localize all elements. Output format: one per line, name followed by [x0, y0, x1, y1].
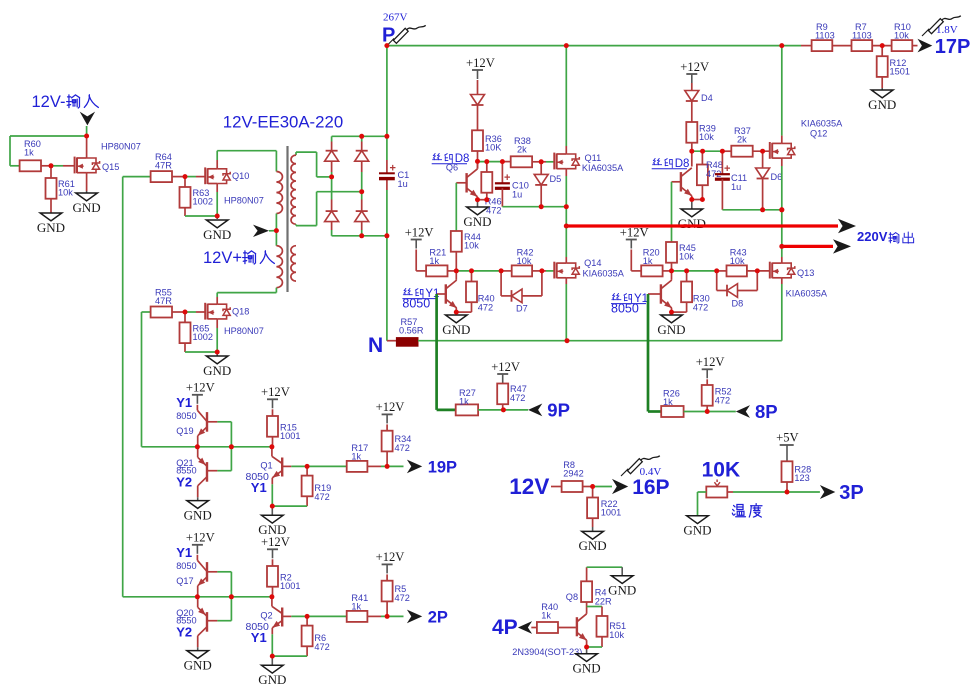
svg-text:+12V: +12V: [261, 535, 290, 549]
svg-text:2k: 2k: [737, 135, 747, 145]
svg-text:GND: GND: [442, 322, 470, 337]
svg-text:Y1: Y1: [176, 545, 192, 560]
svg-text:Q17: Q17: [176, 576, 193, 586]
svg-text:1k: 1k: [429, 256, 439, 266]
svg-text:Y2: Y2: [176, 474, 192, 489]
svg-text:Q11: Q11: [585, 153, 602, 163]
svg-text:GND: GND: [203, 363, 231, 378]
svg-text:GND: GND: [184, 507, 212, 522]
svg-text:220V: 220V: [857, 229, 888, 244]
svg-text:Y2: Y2: [176, 624, 192, 639]
svg-text:GND: GND: [37, 220, 65, 235]
svg-text:+12V: +12V: [186, 381, 215, 395]
svg-text:KIA6035A: KIA6035A: [801, 119, 843, 129]
svg-text:472: 472: [715, 396, 730, 406]
svg-text:472: 472: [314, 642, 329, 652]
svg-text:2P: 2P: [428, 608, 448, 626]
svg-text:2942: 2942: [563, 469, 583, 479]
svg-text:3P: 3P: [839, 482, 863, 504]
svg-text:Q15: Q15: [102, 162, 119, 172]
svg-text:Q13: Q13: [797, 268, 814, 278]
svg-text:2N3904(SOT-23): 2N3904(SOT-23): [512, 647, 582, 657]
svg-text:472: 472: [395, 443, 410, 453]
svg-text:1103: 1103: [815, 31, 835, 41]
svg-text:267V: 267V: [383, 12, 408, 24]
svg-text:10K: 10K: [702, 459, 741, 482]
svg-text:KIA6035A: KIA6035A: [786, 289, 828, 299]
svg-text:1001: 1001: [280, 431, 300, 441]
svg-text:KIA6035A: KIA6035A: [582, 163, 624, 173]
svg-text:Y1: Y1: [251, 630, 267, 645]
svg-text:0.56R: 0.56R: [399, 326, 424, 336]
svg-text:1k: 1k: [459, 396, 469, 406]
svg-text:Q1: Q1: [260, 460, 272, 470]
svg-text:12V: 12V: [509, 474, 549, 499]
svg-text:19P: 19P: [428, 458, 457, 476]
svg-text:GND: GND: [73, 200, 101, 215]
svg-text:472: 472: [510, 393, 525, 403]
svg-text:8P: 8P: [755, 401, 778, 422]
svg-text:10k: 10k: [894, 31, 909, 41]
svg-text:1u: 1u: [731, 182, 741, 192]
svg-text:Y1: Y1: [251, 480, 267, 495]
svg-text:Q12: Q12: [810, 129, 827, 139]
svg-text:+12V: +12V: [376, 400, 405, 414]
svg-text:16P: 16P: [632, 476, 669, 499]
svg-text:12V-EE30A-220: 12V-EE30A-220: [223, 113, 343, 132]
svg-text:10k: 10k: [58, 188, 73, 198]
svg-text:GND: GND: [608, 583, 636, 598]
svg-text:1001: 1001: [601, 508, 621, 518]
svg-text:1k: 1k: [24, 148, 34, 158]
svg-text:10k: 10k: [699, 132, 714, 142]
svg-text:Q6: Q6: [446, 163, 458, 173]
svg-text:10k: 10k: [609, 630, 624, 640]
svg-text:+12V: +12V: [491, 360, 520, 374]
svg-text:8050: 8050: [176, 411, 196, 421]
svg-text:GND: GND: [258, 672, 286, 687]
svg-text:10k: 10k: [517, 256, 532, 266]
svg-text:Y1: Y1: [176, 395, 192, 410]
svg-text:D8: D8: [732, 299, 744, 309]
svg-text:+12V: +12V: [620, 225, 649, 239]
svg-text:8050: 8050: [176, 561, 196, 571]
svg-text:472: 472: [693, 303, 708, 313]
svg-text:+: +: [390, 163, 396, 175]
svg-text:+12V: +12V: [376, 550, 405, 564]
svg-text:D6: D6: [771, 172, 783, 182]
svg-text:KIA6035A: KIA6035A: [583, 269, 625, 279]
svg-text:GND: GND: [184, 657, 212, 672]
svg-text:D7: D7: [516, 304, 528, 314]
svg-text:HP80N07: HP80N07: [224, 196, 264, 206]
svg-text:10k: 10k: [679, 252, 694, 262]
svg-text:10k: 10k: [730, 256, 745, 266]
svg-text:D4: D4: [701, 93, 713, 103]
svg-text:472: 472: [395, 593, 410, 603]
svg-text:GND: GND: [678, 216, 706, 231]
svg-text:GND: GND: [573, 661, 601, 676]
svg-text:Q14: Q14: [584, 258, 601, 268]
svg-text:17P: 17P: [935, 36, 971, 58]
svg-text:9P: 9P: [547, 400, 570, 421]
svg-text:1u: 1u: [398, 179, 408, 189]
svg-text:+5V: +5V: [776, 431, 799, 445]
svg-text:10K: 10K: [485, 143, 502, 153]
svg-text:GND: GND: [868, 97, 896, 112]
svg-text:8050: 8050: [402, 297, 430, 311]
svg-text:1001: 1001: [280, 581, 300, 591]
svg-text:12V+: 12V+: [203, 249, 242, 267]
svg-text:GND: GND: [463, 214, 491, 229]
svg-text:2k: 2k: [517, 145, 527, 155]
svg-text:+: +: [724, 163, 730, 175]
svg-text:47R: 47R: [155, 161, 172, 171]
svg-text:Q18: Q18: [232, 307, 249, 317]
svg-text:+12V: +12V: [405, 225, 434, 239]
svg-text:1103: 1103: [852, 31, 872, 41]
svg-text:1002: 1002: [193, 332, 213, 342]
svg-text:472: 472: [478, 303, 493, 313]
svg-text:1u: 1u: [512, 190, 522, 200]
svg-text:+12V: +12V: [186, 531, 215, 545]
svg-text:1002: 1002: [193, 197, 213, 207]
svg-text:Q10: Q10: [232, 171, 249, 181]
svg-text:Q2: Q2: [260, 610, 272, 620]
svg-text:472: 472: [314, 492, 329, 502]
svg-text:+12V: +12V: [696, 355, 725, 369]
svg-text:+12V: +12V: [680, 60, 709, 74]
svg-text:1k: 1k: [643, 256, 653, 266]
svg-text:10k: 10k: [464, 241, 479, 251]
svg-text:+12V: +12V: [466, 56, 495, 70]
svg-text:1501: 1501: [890, 67, 910, 77]
svg-text:+12V: +12V: [261, 385, 290, 399]
svg-text:HP80N07: HP80N07: [224, 326, 264, 336]
svg-text:N: N: [368, 334, 383, 357]
svg-text:8050: 8050: [611, 302, 639, 316]
svg-text:22R: 22R: [595, 597, 612, 607]
svg-text:GND: GND: [579, 538, 607, 553]
svg-text:Q8: Q8: [566, 592, 578, 602]
svg-text:HP80N07: HP80N07: [101, 142, 141, 152]
svg-text:D5: D5: [550, 174, 562, 184]
svg-text:0.4V: 0.4V: [640, 466, 662, 478]
svg-text:GND: GND: [683, 523, 711, 538]
svg-text:47R: 47R: [155, 296, 172, 306]
svg-text:123: 123: [794, 473, 809, 483]
svg-text:1k: 1k: [663, 397, 673, 407]
svg-text:1k: 1k: [351, 452, 361, 462]
svg-text:12V-: 12V-: [32, 93, 66, 111]
svg-text:4P: 4P: [492, 616, 518, 639]
svg-text:GND: GND: [203, 227, 231, 242]
svg-text:GND: GND: [657, 322, 685, 337]
svg-text:Q19: Q19: [176, 426, 193, 436]
svg-text:+: +: [504, 172, 510, 184]
svg-text:1k: 1k: [541, 611, 551, 621]
svg-text:1k: 1k: [351, 602, 361, 612]
